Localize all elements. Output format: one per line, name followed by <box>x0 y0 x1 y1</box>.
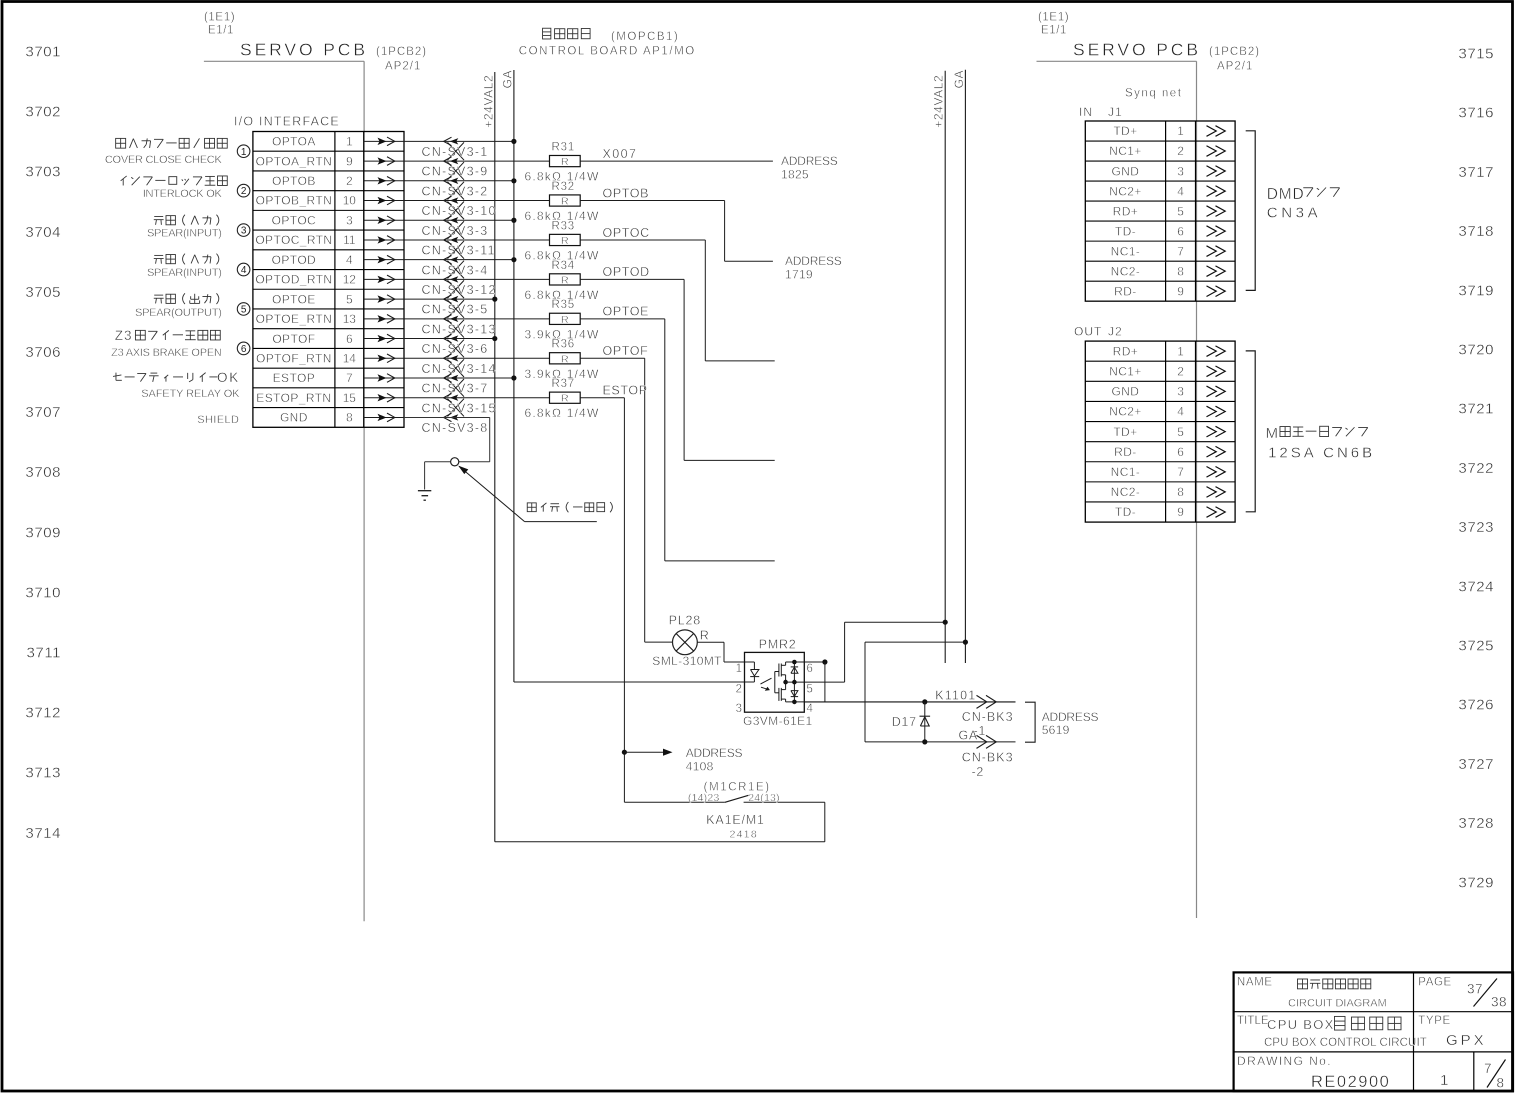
connector pin out-arrows <box>364 137 404 422</box>
svg-text:CN-SV3-10: CN-SV3-10 <box>422 204 497 218</box>
svg-text:7: 7 <box>1484 1061 1492 1076</box>
svg-text:NC2+: NC2+ <box>1109 405 1142 419</box>
net ADDRESS 5619 bracket <box>1025 702 1099 742</box>
svg-text:M: M <box>1266 425 1279 442</box>
net label CN-SV3-8 <box>422 421 489 435</box>
svg-text:R35: R35 <box>552 299 576 311</box>
mounting hole terminal <box>451 458 459 466</box>
svg-text:4: 4 <box>1177 405 1184 419</box>
wire OPTOD pin 4 to rail <box>404 257 517 262</box>
svg-text:1: 1 <box>1177 344 1184 358</box>
resistor R33 6.8k&#937; 1/4W <box>525 220 600 262</box>
wire OPTOA pin 1 to rail <box>404 139 517 144</box>
svg-text:3708: 3708 <box>25 464 61 481</box>
net label CN-SV3-1 <box>422 145 489 159</box>
svg-text:12SA CN6B: 12SA CN6B <box>1268 445 1375 462</box>
svg-text:Z3 AXIS BRAKE OPEN: Z3 AXIS BRAKE OPEN <box>111 347 222 359</box>
svg-text:3725: 3725 <box>1458 638 1494 655</box>
svg-text:ESTOP: ESTOP <box>273 371 315 385</box>
resistor R36 3.9k&#937; 1/4W <box>525 339 600 381</box>
svg-text:CN-SV3-5: CN-SV3-5 <box>422 303 489 317</box>
wire signal OPTOB <box>580 186 773 261</box>
circled pair number 5 <box>237 303 250 316</box>
svg-text:ADDRESS: ADDRESS <box>781 154 838 168</box>
resistor R37 6.8k&#937; 1/4W <box>525 378 600 420</box>
svg-text:OPTOF: OPTOF <box>603 344 649 358</box>
wire ESTOP_RTN pin 15 <box>404 397 550 399</box>
net ADDRESS 4108 pointer <box>624 746 742 774</box>
svg-text:Synq net: Synq net <box>1125 88 1182 100</box>
svg-text:CN-SV3-13: CN-SV3-13 <box>422 322 497 336</box>
svg-text:OPTOE: OPTOE <box>603 305 650 319</box>
svg-text:CN-SV3-14: CN-SV3-14 <box>422 362 497 376</box>
svg-text:9: 9 <box>1177 505 1184 519</box>
svg-text:CN-SV3-1: CN-SV3-1 <box>422 145 489 159</box>
wire OPTOE_RTN pin 13 <box>404 318 550 320</box>
svg-text:3702: 3702 <box>25 104 61 121</box>
wire OPTOD_RTN pin 12 <box>404 278 550 280</box>
svg-text:OPTOF: OPTOF <box>272 332 315 346</box>
svg-text:4: 4 <box>1177 184 1184 198</box>
net label CN-SV3-9 <box>422 165 489 179</box>
svg-text:(1E1): (1E1) <box>1038 12 1069 24</box>
lamp PL28 SML-310MT <box>652 613 722 668</box>
svg-text:1: 1 <box>346 135 353 149</box>
connector CN-SV3 I/O INTERFACE table <box>234 115 404 428</box>
svg-text:(1PCB2): (1PCB2) <box>376 46 427 58</box>
svg-text:3716: 3716 <box>1458 105 1494 122</box>
svg-text:4: 4 <box>346 253 353 267</box>
svg-text:5: 5 <box>241 305 247 316</box>
svg-text:NC1+: NC1+ <box>1109 144 1142 158</box>
svg-text:3710: 3710 <box>25 584 61 601</box>
net label CN-SV3-15 <box>422 401 497 415</box>
svg-text:NC2-: NC2- <box>1111 264 1141 278</box>
svg-text:2: 2 <box>346 174 353 188</box>
svg-text:NC1-: NC1- <box>1111 244 1141 258</box>
svg-text:1: 1 <box>736 663 742 675</box>
svg-text:D17: D17 <box>892 715 917 729</box>
svg-text:CN-SV3-11: CN-SV3-11 <box>422 244 496 258</box>
svg-text:GA: GA <box>959 729 978 743</box>
+24VAL2 rail (left) <box>481 72 495 842</box>
svg-text:R31: R31 <box>552 141 576 153</box>
svg-text:PMR2: PMR2 <box>759 638 797 652</box>
resistor R31 6.8k&#937; 1/4W <box>525 141 600 183</box>
svg-text:6: 6 <box>1177 445 1184 459</box>
net label CN-SV3-12 <box>422 283 497 297</box>
svg-text:1: 1 <box>241 147 247 158</box>
svg-text:CN3A: CN3A <box>1267 205 1321 222</box>
wire GND pin 8 <box>404 417 490 489</box>
svg-text:8: 8 <box>1497 1075 1505 1090</box>
svg-text:SPEAR(INPUT): SPEAR(INPUT) <box>147 228 222 240</box>
svg-text:SAFETY RELAY OK: SAFETY RELAY OK <box>141 388 240 400</box>
svg-text:5619: 5619 <box>1042 723 1070 737</box>
net ADDRESS 1825 <box>781 154 838 182</box>
svg-text:E1/1: E1/1 <box>1041 25 1067 37</box>
input label SPEAR INPUT row pair 2 <box>147 254 222 279</box>
input label SAFETY RELAY OK row pair <box>113 370 240 400</box>
svg-text:CN-SV3-15: CN-SV3-15 <box>422 401 497 415</box>
SERVO PCB (1PCB2) AP2/1 block boundary (left) <box>204 12 427 922</box>
svg-text:OPTOD: OPTOD <box>603 265 650 279</box>
svg-text:TITLE: TITLE <box>1237 1015 1269 1027</box>
svg-text:X007: X007 <box>603 147 638 161</box>
GA rail (left) <box>500 70 514 682</box>
right grid reference numbers 3715-3729 <box>1458 46 1494 892</box>
svg-text:OPTOC: OPTOC <box>603 226 650 240</box>
svg-text:GND: GND <box>280 411 308 425</box>
svg-text:12: 12 <box>343 273 357 287</box>
svg-text:CONTROL BOARD AP1/MO: CONTROL BOARD AP1/MO <box>519 46 696 58</box>
svg-text:OPTOA: OPTOA <box>272 135 316 149</box>
svg-text:3: 3 <box>736 703 742 715</box>
wire ESTOP net vertical <box>622 398 627 803</box>
svg-text:3724: 3724 <box>1458 578 1494 595</box>
svg-text:CPU BOX CONTROL CIRCUIT: CPU BOX CONTROL CIRCUIT <box>1264 1037 1427 1049</box>
svg-text:7: 7 <box>1177 244 1184 258</box>
wire PMR2 pin 6 tie to pin 4 <box>804 659 827 702</box>
svg-text:E1/1: E1/1 <box>208 25 234 37</box>
left grid reference numbers 3701-3714 <box>25 44 61 842</box>
svg-text:OPTOB: OPTOB <box>272 174 316 188</box>
svg-text:OPTOF_RTN: OPTOF_RTN <box>256 351 332 365</box>
wire OPTOB_RTN pin 10 <box>404 200 550 202</box>
svg-text:3701: 3701 <box>25 44 61 61</box>
svg-text:OPTOB_RTN: OPTOB_RTN <box>256 194 333 208</box>
svg-text:14: 14 <box>343 351 357 365</box>
svg-text:6: 6 <box>241 344 247 355</box>
svg-text:6: 6 <box>1177 224 1184 238</box>
net label CN-SV3-6 <box>422 342 489 356</box>
wire signal OPTOF <box>580 344 672 642</box>
net label CN-SV3-4 <box>422 263 489 277</box>
svg-text:J1: J1 <box>1108 105 1123 119</box>
svg-text:G3VM-61E1: G3VM-61E1 <box>743 714 813 728</box>
svg-text:3717: 3717 <box>1458 164 1494 181</box>
svg-text:(MOPCB1): (MOPCB1) <box>611 31 679 43</box>
svg-text:2418: 2418 <box>730 828 759 840</box>
svg-text:OPTOC: OPTOC <box>272 213 316 227</box>
svg-text:SML-310MT: SML-310MT <box>652 654 722 668</box>
wire lamp to PMR2 pin 1 <box>697 642 754 662</box>
svg-text:TD+: TD+ <box>1113 425 1137 439</box>
svg-text:3: 3 <box>1177 385 1184 399</box>
wire OPTOF_RTN pin 14 <box>404 357 550 359</box>
svg-text:I/O INTERFACE: I/O INTERFACE <box>234 115 340 129</box>
circled pair number 2 <box>237 184 250 197</box>
svg-text:RD+: RD+ <box>1113 344 1139 358</box>
wire OPTOF pin 6 to rail <box>404 336 497 341</box>
svg-text:AP2/1: AP2/1 <box>1217 61 1253 73</box>
svg-text:CN-SV3-2: CN-SV3-2 <box>422 184 489 198</box>
circled pair number 3 <box>237 224 250 237</box>
svg-text:OPTOB: OPTOB <box>603 186 650 200</box>
wire ESTOP pin 7 to rail <box>404 375 517 380</box>
svg-text:3: 3 <box>241 226 247 237</box>
svg-text:TD+: TD+ <box>1113 124 1137 138</box>
svg-text:PL28: PL28 <box>669 613 701 627</box>
svg-text:DMD: DMD <box>1267 186 1305 203</box>
resistor R32 6.8k&#937; 1/4W <box>525 181 600 223</box>
svg-text:(1E1): (1E1) <box>204 12 235 24</box>
svg-text:10: 10 <box>343 194 357 208</box>
M-axis servo amp 12SA CN6B bracket <box>1246 351 1375 512</box>
svg-text:ADDRESS: ADDRESS <box>1042 710 1099 724</box>
svg-text:6: 6 <box>346 332 353 346</box>
svg-text:3711: 3711 <box>27 645 61 662</box>
wire signal X007 <box>580 147 773 161</box>
svg-text:3715: 3715 <box>1458 46 1494 63</box>
svg-text:7: 7 <box>1177 465 1184 479</box>
svg-text:KA1E/M1: KA1E/M1 <box>706 813 764 827</box>
svg-text:38: 38 <box>1491 995 1507 1010</box>
input label SPEAR INPUT row pair 1 <box>147 215 222 240</box>
svg-text:R: R <box>561 393 569 405</box>
solid state relay PMR2 G3VM-61E1 <box>736 638 814 728</box>
net label CN-SV3-5 <box>422 303 489 317</box>
svg-text:ADDRESS: ADDRESS <box>785 254 842 268</box>
svg-text:OPTOA_RTN: OPTOA_RTN <box>256 154 333 168</box>
svg-text:3729: 3729 <box>1458 874 1494 891</box>
wire OPTOE pin 5 to rail <box>404 297 497 302</box>
svg-text:3727: 3727 <box>1458 756 1494 773</box>
svg-text:3719: 3719 <box>1458 282 1494 299</box>
net label CN-SV3-11 <box>422 244 496 258</box>
svg-text:Z3: Z3 <box>115 328 133 343</box>
svg-text:SPEAR(INPUT): SPEAR(INPUT) <box>147 267 222 279</box>
svg-text:TD-: TD- <box>1115 505 1136 519</box>
net label CN-SV3-13 <box>422 322 497 336</box>
net label CN-SV3-14 <box>422 362 497 376</box>
svg-text:11: 11 <box>343 233 356 247</box>
svg-text:NAME: NAME <box>1237 977 1273 989</box>
svg-text:R37: R37 <box>552 378 576 390</box>
net ADDRESS 1719 <box>785 254 842 282</box>
svg-text:1825: 1825 <box>781 167 809 181</box>
circled pair number 4 <box>237 263 250 276</box>
control board MOPCB1 AP1/MO header <box>519 28 696 57</box>
svg-text:NC2-: NC2- <box>1111 485 1141 499</box>
wire OPTOC_RTN pin 11 <box>404 239 550 241</box>
svg-text:1: 1 <box>1440 1072 1448 1089</box>
svg-text:R34: R34 <box>552 260 576 272</box>
svg-text:3723: 3723 <box>1458 519 1494 536</box>
svg-text:3703: 3703 <box>25 164 61 181</box>
svg-text:3718: 3718 <box>1458 223 1494 240</box>
net label CN-SV3-2 <box>422 184 489 198</box>
wire OPTOB pin 2 to rail <box>404 178 517 183</box>
input label INTERLOCK OK row pair <box>121 176 228 200</box>
net label CN-SV3-7 <box>422 382 489 396</box>
svg-text:ESTOP_RTN: ESTOP_RTN <box>256 391 331 405</box>
svg-text:CN-SV3-7: CN-SV3-7 <box>422 382 489 396</box>
svg-text:INTERLOCK OK: INTERLOCK OK <box>143 188 223 200</box>
GA rail (right) <box>952 70 966 663</box>
circled pair number 1 <box>237 145 250 158</box>
twisted pair bundle symbol CN-SV3 harness <box>444 137 464 421</box>
connector J2 OUT <box>1074 324 1235 522</box>
svg-text:3714: 3714 <box>25 825 61 842</box>
svg-text:R: R <box>561 274 569 286</box>
wire OPTOA_RTN pin 9 <box>404 160 550 162</box>
svg-text:GA: GA <box>500 70 514 89</box>
svg-text:R33: R33 <box>552 220 576 232</box>
svg-text:5: 5 <box>346 292 353 306</box>
svg-text:RD-: RD- <box>1114 445 1137 459</box>
svg-text:+24VAL2: +24VAL2 <box>481 75 495 128</box>
svg-text:9: 9 <box>346 154 353 168</box>
svg-text:5: 5 <box>1177 425 1184 439</box>
svg-text:OPTOD_RTN: OPTOD_RTN <box>255 273 332 287</box>
svg-text:OPTOE: OPTOE <box>272 292 316 306</box>
svg-text:SHIELD: SHIELD <box>197 414 239 426</box>
svg-text:CIRCUIT DIAGRAM: CIRCUIT DIAGRAM <box>1288 997 1387 1009</box>
svg-text:2: 2 <box>241 186 247 197</box>
svg-text:3726: 3726 <box>1458 697 1494 714</box>
svg-text:3713: 3713 <box>25 765 61 782</box>
resistor R35 3.9k&#937; 1/4W <box>525 299 600 341</box>
svg-text:3: 3 <box>1177 164 1184 178</box>
svg-text:R: R <box>700 628 709 642</box>
svg-text:-2: -2 <box>972 765 985 779</box>
svg-text:6.8kΩ 1/4W: 6.8kΩ 1/4W <box>525 406 600 420</box>
svg-text:8: 8 <box>1177 264 1184 278</box>
svg-text:R: R <box>561 314 569 326</box>
svg-text:NC1+: NC1+ <box>1109 364 1142 378</box>
svg-text:2: 2 <box>1177 144 1184 158</box>
svg-text:15: 15 <box>343 391 357 405</box>
svg-text:2: 2 <box>736 684 742 696</box>
svg-text:8: 8 <box>1177 485 1184 499</box>
svg-text:3722: 3722 <box>1458 460 1494 477</box>
svg-text:CN-SV3-9: CN-SV3-9 <box>422 165 489 179</box>
wire contact return to +24VAL2 rail <box>495 802 825 842</box>
svg-text:PAGE: PAGE <box>1418 977 1452 989</box>
svg-text:SERVO PCB: SERVO PCB <box>1073 40 1201 60</box>
svg-text:NC2+: NC2+ <box>1109 184 1142 198</box>
svg-text:DRAWING No.: DRAWING No. <box>1237 1054 1332 1068</box>
svg-text:37: 37 <box>1467 982 1483 997</box>
svg-text:24(13): 24(13) <box>748 792 780 804</box>
svg-text:CPU BOX: CPU BOX <box>1267 1017 1335 1032</box>
svg-text:CN-SV3-6: CN-SV3-6 <box>422 342 489 356</box>
svg-text:1719: 1719 <box>785 267 813 281</box>
resistor R34 6.8k&#937; 1/4W <box>525 260 600 302</box>
svg-text:CN-SV3-8: CN-SV3-8 <box>422 421 489 435</box>
wire K1101 from PMR2 pin 4 to CN-BK3-1 <box>804 688 1015 738</box>
svg-text:4108: 4108 <box>686 760 714 774</box>
svg-text:3721: 3721 <box>1458 401 1494 418</box>
svg-text:COVER CLOSE CHECK: COVER CLOSE CHECK <box>105 154 223 166</box>
input label Z3 AXIS BRAKE OPEN row pair <box>111 328 222 359</box>
svg-text:3706: 3706 <box>25 344 61 361</box>
svg-text:GND: GND <box>1112 164 1140 178</box>
svg-text:OPTOE_RTN: OPTOE_RTN <box>256 312 333 326</box>
svg-text:3720: 3720 <box>1458 342 1494 359</box>
svg-text:CN-SV3-4: CN-SV3-4 <box>422 263 489 277</box>
svg-text:R: R <box>561 353 569 365</box>
svg-text:3709: 3709 <box>25 524 61 541</box>
ground <box>418 491 431 501</box>
+24VAL2 rail (right) <box>932 71 946 663</box>
svg-text:R32: R32 <box>552 181 576 193</box>
svg-text:ESTOP: ESTOP <box>603 384 648 398</box>
svg-text:OPTOD: OPTOD <box>272 253 316 267</box>
svg-text:IN: IN <box>1079 105 1093 119</box>
svg-text:RD-: RD- <box>1114 284 1137 298</box>
input label SPEAR OUTPUT row pair <box>135 293 222 319</box>
svg-text:(1PCB2): (1PCB2) <box>1209 46 1260 58</box>
svg-text:3712: 3712 <box>25 705 61 722</box>
svg-text:CN-BK3: CN-BK3 <box>962 751 1014 765</box>
wire GA to CN-BK3-2 <box>865 640 1016 779</box>
net label CN-SV3-10 <box>422 204 497 218</box>
DMD amp CN3A bracket <box>1246 131 1340 291</box>
svg-text:5: 5 <box>807 684 813 696</box>
svg-text:ADDRESS: ADDRESS <box>686 746 743 760</box>
wire signal ESTOP <box>580 384 647 398</box>
svg-text:OK: OK <box>217 370 240 385</box>
svg-text:13: 13 <box>343 312 357 326</box>
svg-text:GPX: GPX <box>1446 1032 1487 1049</box>
svg-text:GND: GND <box>1112 385 1140 399</box>
net label CN-SV3-3 <box>422 224 489 238</box>
svg-text:K1101: K1101 <box>935 688 976 702</box>
svg-text:3728: 3728 <box>1458 815 1494 832</box>
wire signal OPTOE <box>580 305 775 561</box>
wire PMR2 pin 5 to +24VAL2 rail <box>804 620 948 682</box>
input label SHIELD <box>197 414 239 426</box>
svg-text:3704: 3704 <box>25 224 61 241</box>
svg-text:9: 9 <box>1177 284 1184 298</box>
svg-text:R: R <box>561 235 569 247</box>
svg-text:7: 7 <box>346 371 353 385</box>
svg-text:OPTOC_RTN: OPTOC_RTN <box>255 233 332 247</box>
svg-text:8: 8 <box>346 411 353 425</box>
svg-text:NC1-: NC1- <box>1111 465 1141 479</box>
svg-text:TD-: TD- <box>1115 224 1136 238</box>
svg-text:R: R <box>561 156 569 168</box>
svg-text:1: 1 <box>1177 124 1184 138</box>
svg-text:4: 4 <box>807 703 814 715</box>
svg-text:TYPE: TYPE <box>1418 1015 1450 1027</box>
svg-text:+24VAL2: +24VAL2 <box>932 75 946 128</box>
diode D17 <box>892 702 930 742</box>
wire GA to PMR2 pin 2 <box>514 681 755 683</box>
svg-text:GA: GA <box>952 70 966 89</box>
svg-text:3705: 3705 <box>25 284 61 301</box>
SERVO PCB (1PCB2) AP2/1 block boundary (right) <box>1037 12 1261 919</box>
connector J1 IN (Synqnet) <box>1079 88 1235 302</box>
note mounting hole (one place) pointer <box>458 466 612 522</box>
svg-text:(14)23: (14)23 <box>688 792 720 804</box>
svg-text:CN-BK3: CN-BK3 <box>962 710 1014 724</box>
svg-text:CN-SV3-3: CN-SV3-3 <box>422 224 489 238</box>
wire signal OPTOC <box>580 226 775 361</box>
svg-text:SPEAR(OUTPUT): SPEAR(OUTPUT) <box>135 307 222 319</box>
circled pair number 6 <box>237 342 250 355</box>
wire signal OPTOD <box>580 265 775 460</box>
svg-text:R: R <box>561 196 569 208</box>
svg-text:R36: R36 <box>552 339 576 351</box>
svg-text:RE02900: RE02900 <box>1311 1073 1390 1091</box>
input label COVER CLOSE CHECK row pair <box>105 138 227 166</box>
svg-text:OUT: OUT <box>1074 324 1102 338</box>
svg-text:6: 6 <box>807 663 813 675</box>
title block <box>1234 972 1513 1091</box>
